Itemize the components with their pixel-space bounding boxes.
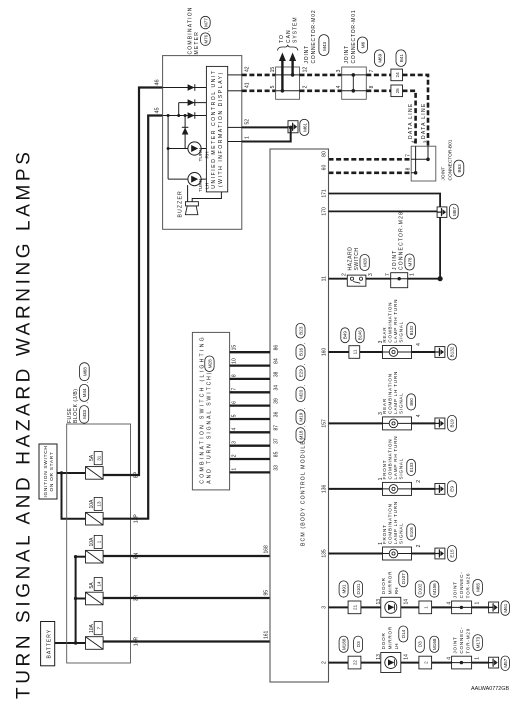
node CAN tap 2	[291, 73, 295, 77]
label M91	[339, 581, 348, 597]
svg-text:1: 1	[245, 136, 251, 139]
connector pin 25 box B41	[391, 85, 403, 97]
wire turn RH lamp line	[168, 148, 206, 150]
svg-text:5: 5	[231, 414, 237, 417]
wire pin 41 inside meter	[228, 90, 242, 92]
diode D-46	[188, 84, 195, 91]
wire combination switch pin 3 to BCM pin 37	[230, 445, 270, 447]
svg-text:5: 5	[270, 85, 276, 88]
svg-text:DATA LINE: DATA LINE	[421, 102, 427, 139]
svg-text:CONNEC-: CONNEC-	[459, 571, 464, 598]
wire lamp to ground	[412, 422, 435, 424]
label D102	[415, 581, 424, 597]
svg-text:M69: M69	[378, 53, 383, 62]
svg-text:160: 160	[322, 348, 328, 357]
svg-text:4: 4	[411, 140, 417, 143]
svg-text:COMBINATION: COMBINATION	[387, 373, 392, 414]
svg-text:M65: M65	[475, 582, 480, 591]
wire meter internal row2 line	[179, 102, 207, 104]
connector pin 24 box M69	[391, 69, 403, 81]
joint connector TOR-M29 M173	[452, 627, 483, 669]
svg-text:M61: M61	[503, 603, 508, 612]
fuse 5A 31	[86, 452, 104, 480]
indicator TURN LH	[188, 172, 211, 192]
svg-text:M57: M57	[452, 207, 457, 216]
svg-text:2: 2	[423, 661, 428, 664]
svg-text:M44: M44	[82, 388, 87, 397]
svg-text:M6: M6	[361, 41, 366, 48]
wire 8P to combination meter pin 46	[103, 88, 163, 476]
front combination lamp RH turn signal E103	[382, 436, 416, 496]
node cross-RH junction	[167, 147, 170, 150]
svg-text:37: 37	[273, 438, 279, 444]
svg-text:CONNECTOR-M02: CONNECTOR-M02	[311, 10, 317, 64]
svg-text:M28: M28	[208, 359, 213, 368]
svg-text:METER: METER	[194, 31, 200, 55]
svg-text:7: 7	[385, 273, 391, 276]
svg-text:JOINT: JOINT	[441, 167, 447, 181]
svg-text:HAZARD: HAZARD	[347, 247, 353, 271]
svg-text:D101: D101	[356, 583, 361, 594]
ground M57	[489, 656, 510, 671]
node M01 common 2	[352, 89, 356, 93]
svg-text:,: ,	[205, 31, 210, 32]
joint connector M28 box M78	[391, 211, 414, 288]
wire connector to joint connector	[432, 662, 452, 664]
ground B132	[435, 344, 457, 360]
ground B19	[435, 415, 457, 431]
svg-text:JOINT: JOINT	[392, 250, 398, 270]
svg-text:REAR: REAR	[382, 327, 387, 343]
svg-text:14: 14	[404, 599, 410, 605]
svg-text:LAMP LH TURN: LAMP LH TURN	[393, 371, 398, 414]
svg-text:2: 2	[322, 661, 328, 664]
svg-text:TURN: TURN	[198, 148, 204, 162]
svg-text:84: 84	[273, 358, 279, 364]
svg-text:,: ,	[300, 364, 305, 365]
svg-text:4: 4	[336, 85, 342, 88]
svg-text:10: 10	[231, 358, 237, 364]
svg-text:D107: D107	[401, 573, 406, 584]
svg-text:E9: E9	[450, 486, 455, 492]
ignition switch ON or START	[39, 444, 57, 499]
svg-text:COMBINATION SWITCH (LIGHTING: COMBINATION SWITCH (LIGHTING	[200, 335, 206, 484]
label M69	[375, 50, 385, 67]
connector 21 M91/D101	[348, 601, 361, 614]
svg-text:3: 3	[322, 606, 328, 609]
title: TURN SIGNAL AND HAZARD WARNING LAMPS	[14, 149, 35, 699]
svg-text:4: 4	[416, 343, 422, 346]
svg-text:JOINT: JOINT	[453, 636, 458, 653]
wire 60 dashed BCM to B01	[329, 171, 412, 174]
joint connector M01 box	[342, 67, 367, 99]
wire ignition to fuse 31	[57, 472, 85, 474]
front combination lamp LH turn signal E105	[382, 501, 416, 560]
svg-text:RH: RH	[204, 151, 210, 158]
node CAN tap 1	[281, 89, 285, 93]
svg-text:4: 4	[231, 428, 237, 431]
label M168	[430, 636, 439, 652]
svg-text:7: 7	[369, 69, 375, 72]
svg-text:E105: E105	[409, 526, 414, 536]
node bus-fuse14 junction	[74, 597, 77, 600]
svg-text:12: 12	[303, 67, 309, 73]
svg-text:SIGNAL: SIGNAL	[398, 392, 403, 414]
node battery-bus junction	[74, 641, 77, 644]
svg-text:FRONT: FRONT	[382, 460, 387, 480]
buzzer	[178, 190, 199, 217]
svg-text:8: 8	[406, 167, 412, 170]
svg-text:6: 6	[231, 401, 237, 404]
svg-text:CONNECTOR-M01: CONNECTOR-M01	[351, 10, 357, 64]
svg-text:REAR: REAR	[382, 398, 387, 414]
svg-text:JOINT: JOINT	[304, 45, 310, 63]
svg-text:BUZZER: BUZZER	[178, 190, 184, 217]
diode D-row2	[188, 99, 195, 106]
wire joint connector to ground	[472, 662, 489, 664]
svg-text:170: 170	[322, 207, 328, 216]
svg-text:TURN: TURN	[198, 178, 204, 192]
svg-text:CONNECTOR-M28: CONNECTOR-M28	[399, 211, 405, 270]
node ignition branch junction	[60, 471, 63, 474]
wire combination switch pin 7 to BCM pin 34	[230, 391, 270, 393]
svg-text:1: 1	[231, 468, 237, 471]
wire row2 to 45 connector	[178, 103, 180, 116]
svg-text:13: 13	[376, 599, 382, 605]
wire data line A dashed	[403, 75, 429, 146]
svg-text:87: 87	[273, 425, 279, 431]
svg-text:2: 2	[231, 454, 237, 457]
wire BCM pin 160 to connector 11	[329, 351, 349, 353]
svg-text:14: 14	[404, 654, 410, 660]
wire battery feed	[55, 642, 86, 644]
node bus-fuse1 junction	[74, 555, 77, 558]
svg-text:D3: D3	[356, 641, 361, 647]
wire data line B dashed	[403, 91, 416, 146]
svg-text:22: 22	[353, 660, 358, 666]
fuse 10A 13	[86, 497, 104, 525]
svg-text:SWITCH: SWITCH	[354, 247, 360, 270]
svg-text:,: ,	[84, 382, 89, 383]
node 45-row2 junction	[177, 114, 180, 117]
svg-text:3: 3	[336, 69, 342, 72]
svg-text:2: 2	[303, 85, 309, 88]
wire arrow to CAN system 2	[289, 53, 296, 75]
svg-text:M76: M76	[203, 34, 208, 43]
svg-text:AALWA0772GB: AALWA0772GB	[471, 686, 509, 692]
wire 1 to ground	[242, 129, 291, 142]
fuse block (J/B) box	[67, 424, 131, 663]
wire CAN-L pin 41 dashed	[242, 89, 276, 92]
wire BCM pin 170 to ground	[329, 210, 438, 212]
svg-text:DATA LINE: DATA LINE	[408, 102, 414, 139]
fuse 10A 1	[86, 535, 104, 563]
svg-text:LAMP LH TURN: LAMP LH TURN	[393, 501, 398, 544]
svg-text:,: ,	[300, 426, 305, 427]
wire connector to joint connector	[432, 606, 452, 608]
brace to CAN system	[278, 45, 298, 51]
svg-text:(WITH INFORMATION DISPLAY): (WITH INFORMATION DISPLAY)	[218, 71, 224, 187]
svg-text:11: 11	[322, 276, 328, 281]
wire 14R to BCM pin 161	[103, 640, 270, 642]
svg-text:B132: B132	[450, 346, 455, 357]
svg-text:,: ,	[84, 402, 89, 403]
svg-text:RH: RH	[394, 588, 399, 595]
connector 2 D3/M168	[419, 656, 432, 669]
wire combination switch pin 8 to BCM pin 38	[230, 378, 270, 380]
svg-text:7: 7	[96, 626, 101, 629]
svg-text:M91: M91	[341, 584, 346, 593]
wire cross connector to turn lamps	[167, 116, 169, 180]
wire combination switch pin 10 to BCM pin 84	[230, 364, 270, 366]
wire combination switch pin 4 to BCM pin 87	[230, 431, 270, 433]
svg-text:4: 4	[447, 657, 453, 660]
wire combination switch pin 5 to BCM pin 36	[230, 418, 270, 420]
svg-text:LAMP RH TURN: LAMP RH TURN	[393, 299, 398, 343]
wire connector 11 to lamp	[360, 351, 383, 353]
svg-text:8: 8	[369, 85, 375, 88]
svg-text:M61: M61	[302, 122, 307, 131]
door mirror RH D107 (turn signal repeater)	[381, 571, 408, 618]
svg-text:E103: E103	[409, 462, 414, 472]
svg-text:2: 2	[416, 544, 422, 547]
svg-text:34: 34	[273, 385, 279, 391]
wire combination switch pin 6 to BCM pin 39	[230, 404, 270, 406]
svg-text:95: 95	[264, 590, 270, 596]
wire pin 1 inside meter	[228, 141, 242, 143]
wire 6N to BCM pin 168	[103, 555, 270, 557]
svg-text:B23: B23	[299, 326, 304, 335]
svg-text:CONNEC-: CONNEC-	[459, 627, 464, 654]
svg-text:86: 86	[273, 345, 279, 351]
wire lamp to ground	[412, 553, 435, 555]
wire arrow to CAN system 1	[279, 53, 286, 91]
svg-text:38: 38	[273, 371, 279, 377]
svg-text:JOINT: JOINT	[453, 581, 458, 598]
svg-text:SYSTEM: SYSTEM	[293, 16, 299, 43]
svg-text:3: 3	[231, 441, 237, 444]
connector 22 M168/D3	[348, 656, 361, 669]
svg-text:E29: E29	[299, 369, 304, 378]
joint connector B01 box B63	[411, 146, 436, 181]
wire combination switch pin 2 to BCM pin 85	[230, 458, 270, 460]
rear combination lamp LH turn signal B90	[382, 371, 416, 430]
svg-text:B41: B41	[399, 54, 404, 63]
svg-text:1: 1	[475, 657, 481, 660]
svg-text:2: 2	[342, 273, 348, 276]
wire BCM pin 11 to hazard switch	[329, 278, 348, 280]
svg-text:D3: D3	[418, 641, 423, 647]
svg-text:1: 1	[378, 542, 384, 545]
wire M28 to ground junction	[408, 278, 440, 280]
svg-text:161: 161	[264, 630, 270, 639]
svg-text:,: ,	[300, 343, 305, 344]
ground E9	[435, 481, 457, 497]
wire CAN-H M02 to M01 dashed	[300, 74, 342, 77]
wire BCM pin 135 to lamp	[329, 553, 383, 555]
svg-text:157: 157	[322, 419, 328, 428]
label B49	[341, 328, 349, 343]
svg-text:MIRROR: MIRROR	[387, 571, 392, 594]
svg-text:52: 52	[245, 119, 251, 125]
ground M61	[489, 601, 510, 616]
svg-text:M78: M78	[408, 257, 413, 266]
svg-text:21: 21	[353, 604, 358, 610]
combination meter label	[188, 6, 211, 54]
svg-text:COMBINATION: COMBINATION	[188, 6, 194, 54]
wire bus to fuse 1	[76, 556, 86, 558]
svg-text:FUSE: FUSE	[67, 408, 73, 424]
svg-text:1: 1	[423, 606, 428, 609]
unified meter control unit box	[206, 66, 227, 192]
joint connector M02 label M43	[304, 10, 329, 64]
svg-text:3: 3	[378, 340, 384, 343]
svg-text:136: 136	[322, 485, 328, 494]
svg-text:25: 25	[395, 88, 400, 94]
svg-text:AND TURN SIGNAL SWITCH): AND TURN SIGNAL SWITCH)	[206, 371, 212, 484]
fuse 10A 7	[86, 622, 104, 650]
svg-text:45: 45	[155, 107, 161, 113]
wire bus to fuse 14	[76, 598, 86, 600]
wire mirror to connector 1	[401, 606, 419, 608]
svg-text:B49: B49	[343, 331, 348, 340]
svg-text:M43: M43	[322, 41, 327, 50]
svg-text:85: 85	[273, 451, 279, 457]
svg-text:11: 11	[353, 349, 358, 354]
svg-text:B16: B16	[299, 347, 304, 356]
svg-text:8: 8	[231, 374, 237, 377]
svg-text:B19: B19	[450, 419, 455, 428]
svg-text:14: 14	[96, 581, 101, 587]
wire BCM pin 171 to ground	[329, 194, 441, 207]
connector 11 B49/B146	[349, 346, 360, 359]
svg-text:M19: M19	[299, 412, 304, 421]
battery (power source)	[41, 622, 55, 666]
svg-text:M57: M57	[503, 658, 508, 667]
svg-text:IGNITION SWITCH: IGNITION SWITCH	[43, 445, 49, 497]
svg-text:24: 24	[395, 72, 400, 78]
wire 13P to combination meter pin 45	[103, 116, 163, 519]
svg-text:B146: B146	[358, 330, 363, 340]
wire combination switch pin 1 to BCM pin 33	[230, 471, 270, 473]
svg-text:MIRROR: MIRROR	[387, 626, 392, 649]
wire joint connector to ground	[472, 606, 489, 608]
svg-text:M68: M68	[82, 367, 87, 376]
wire up-diode branch	[184, 116, 186, 149]
svg-text:BATTERY: BATTERY	[46, 629, 52, 659]
svg-text:COMBINATION: COMBINATION	[387, 302, 392, 343]
svg-text:2: 2	[416, 480, 422, 483]
svg-text:1: 1	[410, 273, 416, 276]
svg-text:B63: B63	[457, 164, 462, 173]
wire lamp to ground	[412, 351, 435, 353]
diode D-45	[188, 112, 195, 119]
label B41	[396, 50, 406, 67]
node branch-45 junction	[184, 114, 187, 117]
indicator TURN RH	[188, 142, 211, 162]
svg-text:135: 135	[322, 549, 328, 558]
svg-text:33: 33	[273, 465, 279, 471]
svg-text:M156: M156	[432, 583, 437, 595]
label D101	[354, 581, 363, 597]
svg-text:COMBINATION: COMBINATION	[387, 439, 392, 480]
svg-text:M173: M173	[475, 636, 480, 648]
label D3	[415, 636, 424, 652]
BCM body control module box	[270, 149, 329, 682]
wire turn LH lamp line	[168, 178, 206, 180]
svg-text:15: 15	[231, 345, 237, 351]
wire pin 42 inside meter	[228, 74, 242, 76]
node ground junction M61	[289, 126, 293, 130]
svg-text:60: 60	[322, 165, 328, 171]
svg-text:80: 80	[322, 151, 328, 157]
svg-text:3: 3	[424, 140, 430, 143]
svg-text:M26: M26	[363, 258, 368, 267]
svg-text:D102: D102	[418, 583, 423, 594]
wire BCM pin 157 to lamp	[329, 422, 383, 424]
svg-text:D14: D14	[401, 629, 406, 638]
svg-text:SIGNAL: SIGNAL	[398, 321, 403, 343]
label M168	[339, 636, 348, 652]
node B01 common 2	[414, 171, 418, 175]
svg-text:JOINT: JOINT	[344, 45, 350, 63]
svg-text:CAN: CAN	[286, 29, 292, 43]
svg-text:46: 46	[155, 79, 161, 85]
svg-text:TOR-M29: TOR-M29	[465, 628, 470, 654]
svg-text:M77: M77	[203, 18, 208, 27]
wire mirror to connector 2	[401, 662, 419, 664]
joint connector M01 label M6	[344, 10, 368, 64]
diode D-branch (points right)	[182, 127, 189, 134]
joint connector TOR-M26 M65	[452, 571, 483, 613]
svg-text:COMBINATION: COMBINATION	[387, 503, 392, 544]
ground E15	[435, 546, 457, 562]
svg-text:SIGNAL: SIGNAL	[398, 522, 403, 544]
svg-text:TURN SIGNAL AND HAZARD WARNING: TURN SIGNAL AND HAZARD WARNING LAMPS	[14, 149, 35, 699]
svg-text:4: 4	[416, 414, 422, 417]
wire connector to door mirror	[361, 662, 381, 664]
combination meter M76 M77 box	[163, 56, 242, 230]
svg-text:E15: E15	[450, 549, 455, 558]
wire CAN-H pin 42 dashed	[242, 74, 276, 77]
wire BCM pin 2 to connector 22	[329, 662, 349, 664]
svg-text:ON OR START: ON OR START	[49, 451, 55, 491]
svg-text:BLOCK (J/B): BLOCK (J/B)	[73, 389, 79, 423]
label B146	[356, 328, 364, 343]
svg-text:3: 3	[378, 412, 384, 415]
svg-text:13: 13	[96, 501, 101, 507]
wire hazard row to ground	[439, 217, 441, 278]
svg-text:4: 4	[447, 602, 453, 605]
svg-text:CONNECTOR-B01: CONNECTOR-B01	[447, 139, 453, 180]
wire CAN-L M01 to 25 dashed	[366, 89, 391, 92]
svg-text:DOOR: DOOR	[381, 577, 386, 594]
svg-text:DOOR: DOOR	[381, 632, 386, 649]
svg-text:M33: M33	[82, 409, 87, 418]
svg-text:168: 168	[264, 545, 270, 554]
svg-text:B102: B102	[409, 325, 414, 335]
svg-text:7: 7	[406, 154, 412, 157]
wire meter internal 45 line	[163, 115, 207, 117]
wire meter internal 46 line	[163, 87, 207, 89]
svg-text:TOR-M26: TOR-M26	[465, 573, 470, 599]
hazard switch M26	[347, 247, 369, 287]
wire battery bus	[75, 557, 77, 643]
svg-text:LH: LH	[394, 644, 399, 650]
svg-text:13: 13	[376, 654, 382, 660]
wire hazard switch to M28 joint	[366, 278, 391, 280]
wire 3R to BCM pin 95	[103, 597, 270, 599]
